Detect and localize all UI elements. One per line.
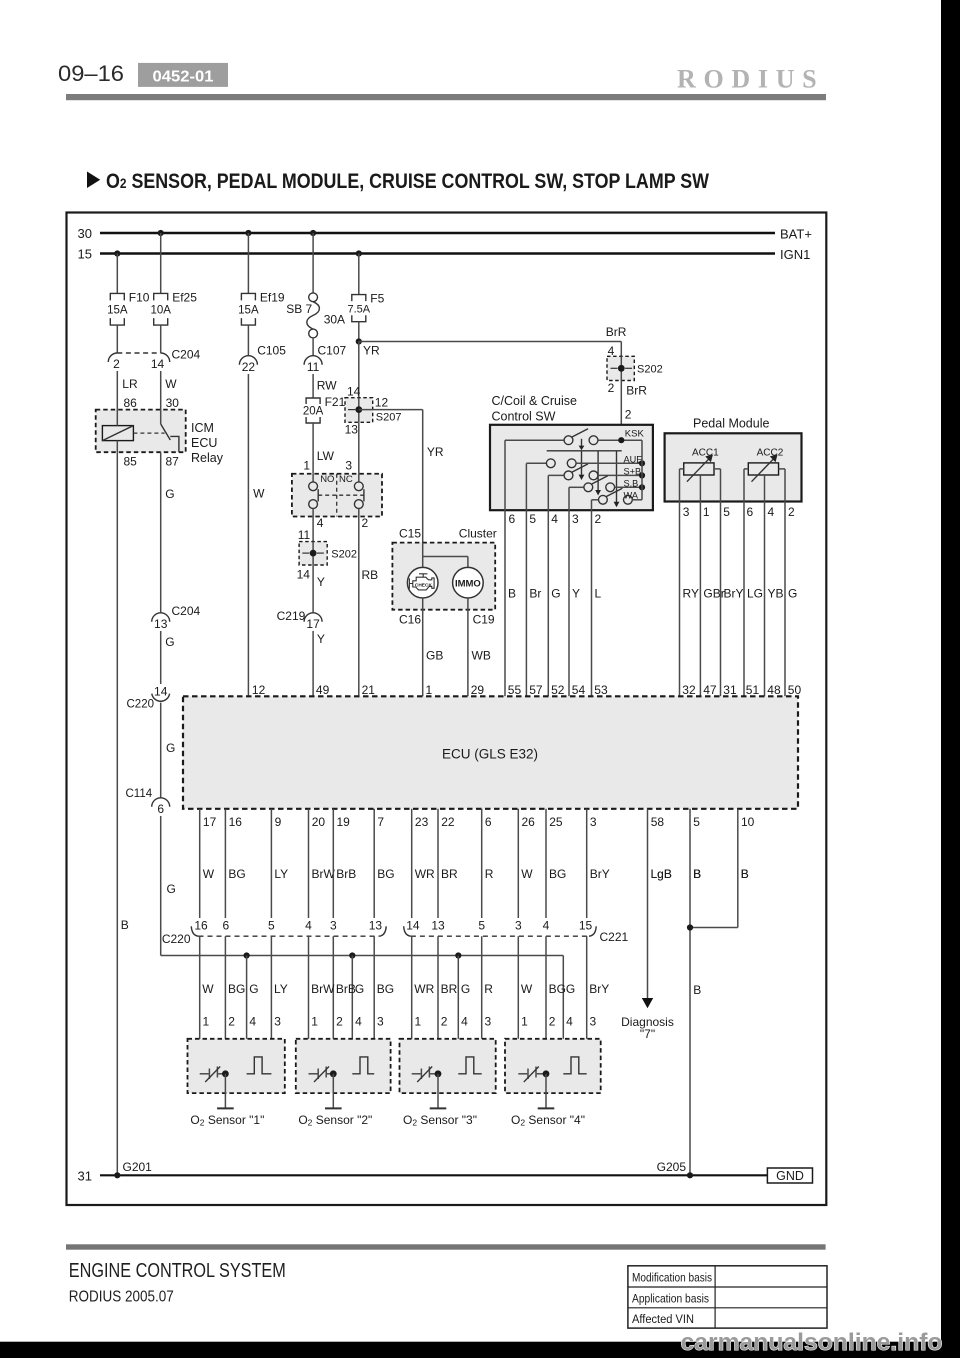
wire F10 to connector C204 pin2 — [116, 325, 118, 353]
svg-text:4: 4 — [355, 1015, 362, 1029]
svg-text:BG: BG — [377, 867, 394, 881]
svg-text:19: 19 — [337, 815, 351, 829]
wire bus30 to fuse Ef19 — [247, 233, 249, 293]
svg-text:Modification basis: Modification basis — [632, 1271, 712, 1285]
svg-text:3: 3 — [274, 1015, 281, 1029]
svg-text:13: 13 — [369, 919, 383, 933]
junction dots on bus 30 — [158, 230, 317, 236]
cluster internal wiring — [423, 543, 468, 568]
svg-text:2: 2 — [336, 1015, 343, 1029]
splice S202 upper box — [607, 356, 663, 380]
svg-text:AUE: AUE — [624, 454, 643, 464]
potentiometer ACC1 — [680, 447, 721, 501]
pin labels 1 2 4 3 of O2 sensor 1 — [203, 1015, 282, 1029]
connector C107 pin 11 — [304, 343, 346, 374]
svg-text:ECU (GLS E32): ECU (GLS E32) — [442, 747, 538, 762]
fuse F10 15A — [107, 290, 150, 325]
wire F21 to stop lamp switch pin1, label LW — [303, 423, 334, 474]
bus 15 IGN1 — [78, 247, 811, 263]
svg-text:L: L — [595, 586, 602, 600]
cruise switch AUE contact row — [526, 454, 645, 467]
svg-text:15A: 15A — [107, 304, 128, 316]
svg-text:NO: NO — [320, 474, 334, 485]
wire Ef19 to connector C105 — [247, 325, 249, 355]
svg-text:3: 3 — [590, 1015, 597, 1029]
svg-text:48: 48 — [767, 683, 781, 697]
svg-text:5: 5 — [529, 512, 536, 526]
svg-text:87: 87 — [166, 455, 180, 469]
svg-text:14: 14 — [347, 385, 361, 399]
revision table — [628, 1266, 827, 1328]
relay ICM ECU Relay box — [96, 410, 224, 465]
header code box 0452-01 — [138, 63, 228, 87]
svg-text:16: 16 — [194, 919, 208, 933]
sensing element of O2 sensor 2 — [352, 1057, 374, 1074]
svg-text:B: B — [121, 918, 129, 932]
footer rule bar — [66, 1244, 826, 1249]
svg-text:3: 3 — [590, 815, 597, 829]
stop lamp switch NC contact — [354, 474, 364, 517]
svg-text:WB: WB — [472, 649, 491, 663]
svg-text:RODIUS 2005.07: RODIUS 2005.07 — [69, 1289, 174, 1306]
circuit breaker SB 7 30A — [286, 293, 345, 338]
wire S207-13 to stop lamp switch pin3 — [345, 422, 358, 473]
wire C220-14 to C114-6, label G — [161, 703, 176, 798]
ground node G201 — [114, 1160, 152, 1178]
ECU (GLS E32) box — [183, 696, 798, 809]
svg-text:7: 7 — [377, 815, 384, 829]
svg-text:C221: C221 — [600, 930, 629, 944]
potentiometer ACC2 — [744, 447, 785, 501]
svg-text:26: 26 — [522, 815, 536, 829]
svg-text:6: 6 — [747, 505, 754, 519]
wire ECU pin5 to G205, labels B — [690, 809, 701, 1176]
fuse Ef25 10A — [150, 290, 197, 325]
wires into O2 sensor 3 — [412, 936, 482, 1074]
svg-text:S.B: S.B — [624, 478, 639, 488]
svg-text:F5: F5 — [370, 292, 384, 306]
svg-text:RODIUS: RODIUS — [677, 65, 824, 94]
svg-text:11: 11 — [307, 360, 320, 374]
wire C219-17 to ECU pin49, label Y — [313, 631, 325, 696]
wire pedal pin6 to ECU pin51, label LG — [744, 502, 763, 697]
ground node G205 — [657, 1160, 693, 1178]
svg-text:2: 2 — [362, 516, 369, 530]
wire S202-2 to cruise switch KSK, labels BrR and 2 — [608, 381, 648, 441]
wire C204-13 to C220-14, label G — [161, 631, 175, 684]
svg-text:22: 22 — [242, 360, 256, 374]
svg-text:20: 20 — [312, 815, 326, 829]
svg-text:2: 2 — [113, 357, 120, 371]
svg-text:BG: BG — [228, 867, 245, 881]
svg-text:20A: 20A — [303, 406, 324, 418]
relay pin 87 label — [166, 455, 180, 469]
svg-text:LW: LW — [317, 449, 335, 463]
ground symbol of O2 sensor 1 — [217, 1074, 234, 1109]
O2 sensor 2 box — [296, 1039, 391, 1093]
svg-text:BG: BG — [377, 982, 394, 996]
wire S202-14 to connector C219, labels 14 and Y — [297, 565, 325, 612]
svg-text:6: 6 — [485, 815, 492, 829]
connector C204 pins 2 and 14 — [108, 348, 200, 372]
wire C105-22 to ECU pin12, label W — [248, 374, 265, 696]
relay contact 30-87 — [161, 410, 179, 453]
svg-text:C204: C204 — [172, 348, 201, 362]
page header number 09-16 — [58, 61, 124, 86]
svg-text:C105: C105 — [257, 343, 286, 357]
svg-text:Ef19: Ef19 — [260, 290, 285, 304]
svg-text:6: 6 — [509, 512, 516, 526]
svg-text:32: 32 — [682, 683, 696, 697]
svg-text:IMMO: IMMO — [455, 579, 481, 590]
svg-text:30: 30 — [166, 396, 180, 410]
svg-text:17: 17 — [203, 815, 217, 829]
connector C221 pin labels 14 13 5 3 4 15 — [406, 919, 592, 933]
right black bar — [941, 0, 960, 1358]
svg-text:C16: C16 — [399, 613, 421, 627]
svg-text:15A: 15A — [238, 304, 259, 316]
junction dot pin5/pin10 — [687, 924, 693, 930]
relay coil — [102, 410, 133, 453]
svg-text:2: 2 — [441, 1015, 448, 1029]
cruise switch internal drop wires — [505, 440, 592, 510]
svg-text:31: 31 — [723, 683, 737, 697]
svg-text:14: 14 — [154, 685, 168, 699]
svg-text:17: 17 — [306, 617, 320, 631]
svg-text:9: 9 — [275, 815, 282, 829]
svg-text:ECU: ECU — [191, 436, 217, 450]
svg-text:BrY: BrY — [724, 586, 744, 600]
svg-text:12: 12 — [375, 396, 389, 410]
svg-text:09–16: 09–16 — [58, 61, 124, 86]
svg-text:5: 5 — [723, 505, 730, 519]
svg-text:W: W — [165, 377, 177, 391]
svg-text:10A: 10A — [150, 304, 171, 316]
svg-text:1: 1 — [426, 683, 433, 697]
svg-text:2: 2 — [788, 505, 795, 519]
wire NC pin2 to ECU pin21, labels 2 and RB — [359, 516, 378, 696]
connector C221 lower row — [404, 926, 629, 944]
stop lamp switch mechanical link — [318, 494, 364, 496]
connector C204 pin 13 — [152, 604, 201, 631]
wire cruise pin2 to ECU pin53, label L — [592, 510, 602, 696]
wire cluster C16 to ECU pin1, labels C16 GB — [399, 598, 443, 696]
svg-text:B: B — [741, 867, 749, 881]
wire NO pin4 to splice S202, labels 4 and 11 — [298, 516, 324, 542]
svg-text:NC: NC — [339, 474, 353, 485]
label O2 Sensor "4" — [511, 1113, 585, 1128]
wire pedal pin1 to ECU pin47, label GBr — [700, 502, 724, 697]
GND box — [767, 1168, 812, 1183]
svg-text:W: W — [202, 982, 214, 996]
svg-text:1: 1 — [415, 1015, 422, 1029]
heater element of O2 sensor 2 — [309, 1067, 334, 1083]
svg-text:BAT+: BAT+ — [780, 227, 812, 242]
junction dots on sensor ground bus — [244, 952, 462, 958]
wire pedal pin4 to ECU pin48, label YB — [765, 502, 784, 697]
svg-text:BG: BG — [228, 982, 245, 996]
svg-text:53: 53 — [594, 683, 608, 697]
ECU bottom pin labels — [203, 815, 755, 829]
svg-text:2: 2 — [595, 512, 602, 526]
svg-text:1: 1 — [703, 505, 710, 519]
wire pedal pin2 to ECU pin50, label G — [785, 502, 797, 697]
wires into O2 sensor 4 — [518, 936, 586, 1074]
svg-text:G: G — [166, 741, 175, 755]
relay mechanical link dashed — [133, 432, 164, 434]
cruise switch position arrows — [579, 439, 620, 507]
svg-text:BG: BG — [549, 982, 566, 996]
svg-text:KSK: KSK — [625, 429, 645, 440]
svg-text:1: 1 — [303, 459, 310, 473]
cruise switch S+B contact row — [548, 464, 645, 480]
svg-text:G: G — [355, 982, 364, 996]
svg-text:ICM: ICM — [191, 421, 214, 435]
wire Ef25 to C204 pin14 — [160, 325, 162, 353]
svg-text:3: 3 — [683, 505, 690, 519]
svg-text:3: 3 — [572, 512, 579, 526]
connector C220 pin labels 16 6 5 4 3 13 — [194, 919, 382, 933]
svg-text:BrY: BrY — [590, 867, 610, 881]
O2 sensor 3 box — [400, 1039, 496, 1093]
svg-text:B: B — [693, 983, 701, 997]
svg-text:13: 13 — [154, 617, 168, 631]
svg-text:YR: YR — [427, 445, 444, 459]
svg-text:LgB: LgB — [651, 867, 672, 881]
svg-text:7.5A: 7.5A — [347, 303, 370, 315]
svg-text:50: 50 — [788, 683, 802, 697]
svg-text:12: 12 — [252, 683, 266, 697]
indicator CHECK engine lamp — [407, 567, 438, 598]
svg-text:C19: C19 — [473, 613, 495, 627]
svg-text:F21: F21 — [325, 395, 346, 409]
ground symbol of O2 sensor 2 — [325, 1074, 342, 1109]
wire bus30 to breaker SB7 — [312, 233, 314, 293]
svg-text:1: 1 — [311, 1015, 318, 1029]
svg-text:4: 4 — [768, 505, 775, 519]
svg-text:B: B — [693, 867, 701, 881]
svg-text:carmanualsonline.info: carmanualsonline.info — [681, 1329, 943, 1356]
wire bus15 to fuse F10 — [116, 254, 118, 294]
wire relay 87 down, label G — [161, 452, 175, 612]
stop lamp switch NO contact — [309, 474, 319, 517]
svg-text:54: 54 — [572, 683, 586, 697]
svg-text:47: 47 — [703, 683, 717, 697]
Cluster box — [392, 527, 496, 610]
heater element of O2 sensor 1 — [200, 1067, 226, 1083]
svg-text:5: 5 — [478, 919, 485, 933]
svg-text:G205: G205 — [657, 1160, 687, 1174]
svg-text:BR: BR — [441, 982, 458, 996]
svg-text:C220: C220 — [127, 699, 155, 711]
svg-text:55: 55 — [508, 683, 522, 697]
svg-text:0452-01: 0452-01 — [153, 69, 214, 86]
svg-text:1: 1 — [203, 1015, 210, 1029]
svg-text:F10: F10 — [129, 290, 150, 304]
wires into O2 sensor 2 — [309, 936, 375, 1074]
svg-text:49: 49 — [316, 683, 330, 697]
wire junction down to splice S207, label YR — [347, 342, 380, 399]
svg-text:11: 11 — [298, 528, 311, 542]
svg-text:C219: C219 — [277, 609, 306, 623]
svg-text:2: 2 — [625, 408, 632, 422]
svg-text:G: G — [788, 586, 797, 600]
wire colour labels below ECU — [203, 867, 749, 881]
svg-text:S202: S202 — [637, 364, 663, 376]
label O2 Sensor "1" — [190, 1113, 264, 1128]
svg-text:Cluster: Cluster — [459, 527, 497, 541]
svg-text:2: 2 — [228, 1015, 235, 1029]
svg-text:4: 4 — [543, 919, 550, 933]
connector C220 lower row — [162, 926, 386, 946]
splice S202 middle box — [299, 542, 357, 565]
svg-text:3: 3 — [345, 459, 352, 473]
splice S207 box — [345, 396, 402, 437]
wire colour labels O2 sensor 1 — [202, 982, 287, 996]
heater element of O2 sensor 3 — [412, 1067, 438, 1083]
svg-text:C220: C220 — [162, 932, 191, 946]
cruise switch common bus — [641, 440, 643, 500]
sensing element of O2 sensor 1 — [247, 1057, 272, 1074]
svg-text:14: 14 — [406, 919, 420, 933]
wire colour labels O2 sensor 3 — [414, 982, 493, 996]
wire colour labels O2 sensor 2 — [311, 982, 394, 996]
svg-text:C114: C114 — [126, 788, 153, 800]
svg-text:16: 16 — [229, 815, 243, 829]
svg-text:LY: LY — [274, 982, 288, 996]
wire cluster C19 to ECU pin29, labels C19 WB — [468, 598, 495, 696]
label O2 Sensor "2" — [298, 1113, 372, 1128]
svg-text:C107: C107 — [318, 343, 347, 357]
svg-text:W: W — [253, 487, 265, 501]
svg-text:Br: Br — [529, 586, 541, 600]
indicator IMMO lamp — [453, 567, 484, 598]
svg-text:G201: G201 — [123, 1160, 153, 1174]
wire C204-14 to relay pin30, label W — [161, 371, 180, 410]
svg-text:LG: LG — [747, 586, 763, 600]
svg-text:G: G — [566, 982, 575, 996]
svg-text:Y: Y — [317, 632, 325, 646]
svg-text:BrR: BrR — [606, 325, 627, 339]
svg-text:4: 4 — [566, 1015, 573, 1029]
svg-text:4: 4 — [317, 516, 324, 530]
O2 sensor 4 box — [505, 1039, 601, 1093]
pin labels 1 2 4 3 of O2 sensor 4 — [521, 1015, 596, 1029]
svg-text:BR: BR — [441, 867, 458, 881]
wire bus30 to fuse Ef25 — [160, 233, 162, 293]
wire C107-11 to fuse F21, label RW — [313, 374, 337, 398]
svg-text:5: 5 — [268, 919, 275, 933]
svg-text:57: 57 — [529, 683, 543, 697]
connector C114 pin 6 — [126, 788, 170, 816]
connector C219 pin 17 — [277, 609, 322, 631]
watermark carmanualsonline.info — [681, 1329, 943, 1356]
wire cruise pin6 to ECU pin55, label B — [505, 510, 516, 696]
svg-text:Ef25: Ef25 — [172, 290, 197, 304]
svg-text:RW: RW — [317, 379, 337, 393]
wire C204-2 to relay pin86, label LR — [117, 371, 138, 410]
svg-text:G: G — [165, 635, 174, 649]
svg-text:3: 3 — [515, 919, 522, 933]
svg-text:4: 4 — [305, 919, 312, 933]
svg-text:15: 15 — [579, 919, 593, 933]
footer subtitle RODIUS 2005.07 — [69, 1289, 174, 1306]
wire relay 85 to ground rail, label B — [117, 452, 129, 1175]
svg-text:W: W — [203, 867, 215, 881]
svg-text:30A: 30A — [324, 313, 345, 327]
svg-text:C15: C15 — [399, 527, 421, 541]
ground symbol of O2 sensor 3 — [430, 1074, 447, 1109]
wire cruise pin5 to ECU pin57, label Br — [526, 510, 541, 696]
svg-text:SB 7: SB 7 — [286, 302, 312, 316]
svg-text:R: R — [484, 982, 493, 996]
pedal module pin labels 3 1 5 6 4 2 — [683, 505, 795, 519]
svg-text:G: G — [249, 982, 258, 996]
svg-text:13: 13 — [431, 919, 445, 933]
svg-text:S207: S207 — [376, 412, 402, 424]
footer title ENGINE CONTROL SYSTEM — [69, 1260, 286, 1282]
svg-text:GND: GND — [776, 1169, 804, 1183]
wire SB7 to connector C107 — [312, 338, 314, 355]
svg-text:Relay: Relay — [191, 451, 224, 465]
svg-text:G: G — [167, 882, 176, 896]
svg-text:86: 86 — [124, 396, 138, 410]
svg-text:RB: RB — [362, 568, 379, 582]
bus 30 BAT+ — [78, 226, 812, 242]
junction dot in O2 sensor 1 — [222, 1070, 229, 1077]
svg-text:3: 3 — [377, 1015, 384, 1029]
sensing element of O2 sensor 4 — [563, 1057, 586, 1074]
wire ECU pin10 join, label B — [690, 809, 749, 928]
svg-text:23: 23 — [415, 815, 429, 829]
pin labels 1 2 4 3 of O2 sensor 3 — [415, 1015, 492, 1029]
svg-text:B: B — [508, 586, 516, 600]
relay pin 85 label — [124, 455, 138, 469]
svg-text:W: W — [521, 867, 533, 881]
pin labels 1 2 4 3 of O2 sensor 2 — [311, 1015, 384, 1029]
cruise switch pin labels 6 5 4 3 2 — [509, 512, 602, 526]
bottom black bar — [0, 1342, 960, 1358]
svg-text:BrY: BrY — [589, 982, 609, 996]
fuse Ef19 15A — [238, 290, 285, 325]
svg-text:Y: Y — [572, 586, 580, 600]
junction dots on bus 15 — [114, 250, 362, 256]
svg-text:BrR: BrR — [626, 383, 647, 397]
svg-text:58: 58 — [651, 815, 665, 829]
svg-text:51: 51 — [746, 683, 760, 697]
svg-text:YR: YR — [363, 343, 380, 357]
svg-text:2: 2 — [608, 381, 615, 395]
svg-text:30: 30 — [78, 226, 92, 241]
svg-text:WR: WR — [415, 867, 435, 881]
fuse F21 20A — [303, 395, 346, 423]
wire colour labels O2 sensor 4 — [521, 982, 609, 996]
svg-text:4: 4 — [551, 512, 558, 526]
wires into O2 sensor 1 — [200, 936, 272, 1074]
svg-text:Pedal Module: Pedal Module — [693, 417, 769, 431]
wire C114-6 down to sensor ground bus, label G — [161, 816, 176, 956]
svg-text:Control SW: Control SW — [492, 410, 556, 424]
svg-text:29: 29 — [471, 683, 485, 697]
svg-text:R: R — [485, 867, 494, 881]
svg-text:2: 2 — [549, 1015, 556, 1029]
svg-text:RY: RY — [683, 586, 699, 600]
junction dot in O2 sensor 2 — [330, 1070, 337, 1077]
svg-text:1: 1 — [521, 1015, 528, 1029]
RODIUS logotype — [677, 65, 824, 94]
svg-text:S+B: S+B — [624, 466, 642, 476]
label O2 Sensor "3" — [403, 1113, 477, 1128]
